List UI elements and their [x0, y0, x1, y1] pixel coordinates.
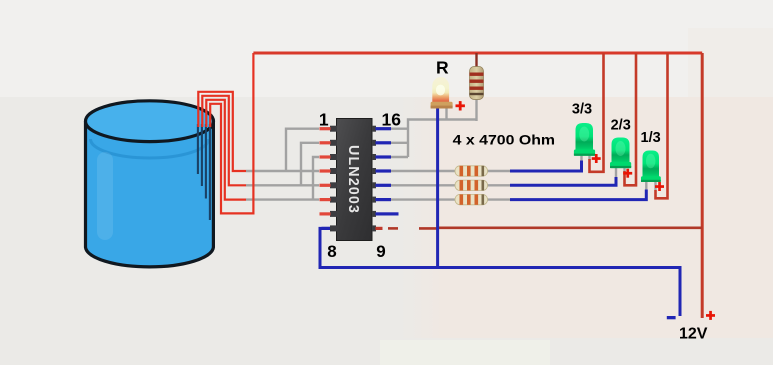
svg-text:12V: 12V — [679, 326, 708, 343]
svg-text:16: 16 — [382, 110, 402, 130]
svg-text:2/3: 2/3 — [611, 117, 631, 133]
svg-text:9: 9 — [376, 242, 385, 261]
svg-text:R: R — [436, 58, 449, 78]
svg-text:1/3: 1/3 — [641, 130, 661, 146]
svg-text:4 x 4700 Ohm: 4 x 4700 Ohm — [453, 132, 555, 148]
svg-text:1: 1 — [319, 110, 329, 130]
svg-text:ULN2003: ULN2003 — [345, 145, 361, 214]
svg-text:8: 8 — [327, 242, 336, 261]
svg-text:3/3: 3/3 — [572, 101, 592, 117]
